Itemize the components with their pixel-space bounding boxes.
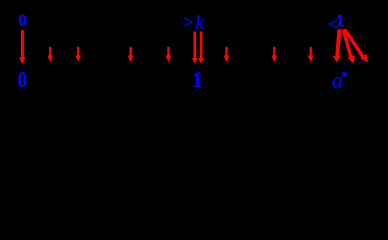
- short red arrow 6: [271, 47, 277, 62]
- fan arrow F2 (middle diagonal): [342, 29, 355, 64]
- svg-text:0: 0: [18, 68, 27, 92]
- node bottom-left 0: [18, 68, 27, 92]
- fan arrow F3 (right diagonal): [343, 28, 368, 62]
- svg-text:0: 0: [19, 11, 28, 30]
- short red arrow 2: [75, 47, 81, 62]
- short red arrow 1: [47, 47, 53, 62]
- svg-text:a: a: [332, 67, 343, 92]
- svg-text:1: 1: [336, 11, 344, 30]
- short red arrow 7: [308, 47, 314, 62]
- short red arrow 4: [165, 47, 171, 62]
- wire: long thick red arrow below top-left 0: [19, 30, 26, 64]
- svg-text:>: >: [184, 12, 194, 32]
- double red arrow under k: [192, 32, 204, 64]
- fan arrow F1 (vertical): [333, 29, 342, 62]
- short red arrow 5: [224, 47, 230, 62]
- short red arrow 3: [128, 47, 134, 62]
- svg-text:1: 1: [192, 68, 203, 92]
- svg-text:k: k: [196, 13, 205, 34]
